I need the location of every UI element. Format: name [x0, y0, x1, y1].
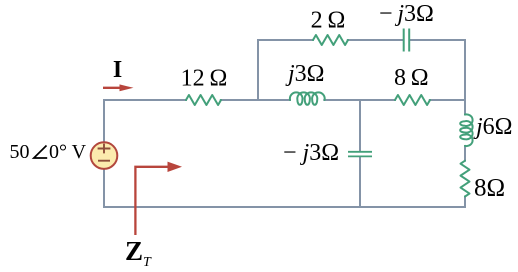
capacitor C -j3ohm middle (plates): [348, 152, 372, 157]
wire: capacitor branch vertical upper: [359, 100, 361, 151]
wire: middle horizontal right of 8ohm: [430, 99, 465, 101]
wire: right vertical top segment: [464, 40, 466, 115]
svg-text:− j3Ω: − j3Ω: [283, 140, 339, 166]
inductor L j6ohm vertical: [460, 114, 472, 146]
resistor R 12ohm: [186, 95, 221, 105]
svg-text:50: 50: [10, 141, 30, 163]
inductor L j3ohm: [290, 92, 325, 104]
svg-text:j6Ω: j6Ω: [473, 114, 513, 140]
wire: right vertical below resistor: [464, 197, 466, 208]
resistor R 8ohm right vertical: [461, 161, 470, 197]
wire: middle horizontal left of 12ohm: [104, 99, 186, 101]
svg-text:8Ω: 8Ω: [474, 175, 505, 202]
capacitor C -j3ohm top (plates): [404, 29, 410, 52]
wire: top horizontal between 2ohm and cap: [348, 39, 403, 41]
source plus sign: [98, 144, 111, 154]
wire: top horizontal right of cap: [410, 39, 465, 41]
angle symbol: [34, 146, 47, 159]
resistor R 8ohm middle: [395, 95, 430, 105]
wire: middle horizontal between coil and 8ohm: [324, 99, 395, 101]
svg-text:0° V: 0° V: [49, 141, 87, 163]
svg-text:j3Ω: j3Ω: [285, 61, 325, 87]
wire: middle horizontal between 12ohm and j3 coil: [221, 99, 290, 101]
impedance arrow ZT: [135, 162, 182, 235]
source minus sign: [98, 160, 110, 162]
wire: capacitor branch vertical lower: [359, 157, 361, 207]
svg-text:I: I: [113, 57, 122, 83]
wire: bottom horizontal: [104, 206, 465, 208]
svg-text:8 Ω: 8 Ω: [394, 65, 429, 91]
svg-text:− j3Ω: − j3Ω: [379, 1, 434, 27]
wire: top horizontal left of 2ohm: [258, 39, 313, 41]
wire: left vertical below source: [103, 170, 105, 208]
svg-text:12 Ω: 12 Ω: [181, 66, 228, 92]
wire: vertical junction up to top branch: [257, 40, 259, 100]
current arrow I: [103, 84, 134, 91]
wire: left vertical above source: [103, 100, 105, 142]
wire: right vertical between coil and resistor: [464, 146, 466, 161]
voltage source 50V circle: [91, 142, 118, 169]
svg-text:2 Ω: 2 Ω: [311, 8, 346, 34]
resistor R 2ohm: [313, 35, 348, 45]
